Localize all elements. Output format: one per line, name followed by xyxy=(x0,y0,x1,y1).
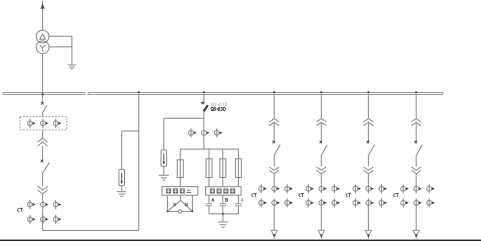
wire feeder 3 down xyxy=(367,207,369,230)
wire box left drop xyxy=(166,195,168,211)
wire QS2 to lower chevrons xyxy=(42,173,44,186)
feeder 3 outgoing arrow xyxy=(365,230,371,237)
CT feeder 3 row1 b xyxy=(366,184,374,193)
CT feeder 2 row2 a xyxy=(306,198,314,207)
wire bus to switch QS1 xyxy=(42,95,44,103)
ground capacitor bank xyxy=(218,222,229,227)
wire capacitor A to rail xyxy=(208,206,210,214)
wire CT box to breaker xyxy=(42,130,44,138)
label CT feeder 3 xyxy=(346,194,351,197)
wire box right drop xyxy=(191,195,193,211)
wire capacitor common rail xyxy=(209,213,238,215)
CT feeder 3 row2 b xyxy=(366,198,374,207)
CT 3a xyxy=(28,215,36,224)
CT 2a xyxy=(28,200,36,209)
node delta bottom left xyxy=(167,211,169,213)
CT feeder 3 row2 c xyxy=(379,198,387,207)
node bus junction incoming xyxy=(41,93,43,95)
contact mark QS1 xyxy=(41,102,44,105)
wire delta bottom xyxy=(167,210,192,212)
wire feeder 2 arrow tail xyxy=(320,237,322,239)
wire feeder 2 switch to chevrons xyxy=(320,155,322,167)
node delta bottom right xyxy=(192,211,194,213)
wire feeder 1 from bus xyxy=(273,95,275,119)
wire box centre drop xyxy=(180,195,182,200)
busbar section I xyxy=(3,93,85,95)
contact mark feeder 2 xyxy=(320,141,323,144)
node bus junction feeder 3 xyxy=(367,91,369,93)
contact mark QS-630 xyxy=(201,102,205,104)
breaker drawout chevrons lower xyxy=(38,186,48,194)
CT 1a xyxy=(28,119,36,128)
wire feeder 4 switch to chevrons xyxy=(415,155,417,167)
wire feeder 4 arrow tail xyxy=(415,237,417,239)
feeder 4 drawout chevrons upper xyxy=(411,119,421,126)
capacitor B plates xyxy=(220,204,227,206)
ground MOA2 xyxy=(159,175,169,180)
CT 2c xyxy=(53,200,61,209)
CT feeder 4 row1 a xyxy=(401,184,409,193)
capacitor A plates xyxy=(206,204,213,206)
label CT feeder 2 xyxy=(299,194,304,197)
wire T1 LV tap to neutral riser xyxy=(49,46,72,48)
wire feeder 2 down xyxy=(320,207,322,230)
label cubicle type faint xyxy=(211,103,227,106)
feeder 4 drawout chevrons lower xyxy=(411,167,421,174)
CT feeder 3 row1 a xyxy=(353,184,361,193)
lamp symbol xyxy=(178,210,181,213)
wire delta left leg xyxy=(167,200,180,211)
label phase C xyxy=(242,199,243,201)
contact mark feeder 3 xyxy=(367,141,370,144)
wire capacitor B to rail xyxy=(222,206,224,214)
fuse F2 xyxy=(206,159,212,178)
wire rail to ground xyxy=(222,214,224,222)
wire feeder 3 chevron to switch xyxy=(367,122,369,141)
feeder 1 outgoing arrow xyxy=(271,230,277,237)
CT feeder 3 row1 c xyxy=(379,184,387,193)
feeder 2 drawout chevrons upper xyxy=(316,119,326,126)
wire rail drop F1 xyxy=(179,149,181,187)
wire rail drop F3 xyxy=(222,149,224,187)
feeder 1 drawout chevrons upper xyxy=(269,119,279,126)
wire loop bottom run xyxy=(43,230,139,232)
label phase B xyxy=(226,198,228,201)
wire feeder 2 to CT grid xyxy=(320,174,322,184)
CT feeder 4 row2 a xyxy=(401,198,409,207)
wire feeder 3 to CT grid xyxy=(367,174,369,184)
wire feeder 4 from bus xyxy=(415,95,417,119)
capacitor C plates xyxy=(235,204,242,206)
wire rail drop F2 xyxy=(208,149,210,187)
CT feeder 2 row2 b xyxy=(319,198,327,207)
node bus junction feeder 4 xyxy=(415,91,417,93)
node capacitor rail centre xyxy=(222,213,224,215)
CT 4c xyxy=(214,128,222,137)
disconnector feeder 4 blade xyxy=(416,145,422,155)
CT 1b xyxy=(41,119,49,128)
wire load-switch drop C xyxy=(237,195,239,204)
CT feeder 4 row1 c xyxy=(427,184,435,193)
CT feeder 4 row1 b xyxy=(414,184,422,193)
CT feeder 4 row2 c xyxy=(427,198,435,207)
feeder 2 outgoing arrow xyxy=(318,230,324,237)
incoming feeder arrow xyxy=(41,1,45,9)
wire MOA2 drop xyxy=(163,118,165,150)
CT 1c xyxy=(53,119,61,128)
fuse cutout mark left xyxy=(173,203,176,206)
wire rail drop F4 xyxy=(237,149,239,187)
wire feeder 2 from bus xyxy=(320,95,322,119)
wire tap to arrester MOA1 xyxy=(122,130,139,132)
disconnector QS2 blade xyxy=(43,162,50,173)
node bus junction feeder 2 xyxy=(320,91,322,93)
wire feeder 3 from bus xyxy=(367,95,369,119)
feeder 1 drawout chevrons lower xyxy=(269,167,279,174)
wire load-switch drop B xyxy=(222,195,224,204)
wire load-switch drop A xyxy=(208,195,210,204)
fuse F1 xyxy=(177,160,183,178)
wire feeder 1 down xyxy=(273,207,275,230)
transformer T1 delta winding xyxy=(36,30,49,43)
CT feeder 2 row2 c xyxy=(332,198,340,207)
contact mark QS2 xyxy=(41,160,44,163)
wire CT row to rail xyxy=(203,137,205,149)
wire feeder 4 down xyxy=(415,207,417,230)
wire MOA1 to ground xyxy=(121,186,123,192)
fuse-switch QS-630 blade xyxy=(204,105,208,111)
wire QS-630 down xyxy=(203,111,205,128)
CT 4b xyxy=(202,128,210,137)
CT feeder 1 row1 c xyxy=(285,184,293,193)
busbar section II xyxy=(88,93,443,95)
CT feeder 4 row2 b xyxy=(414,198,422,207)
load switch box label xyxy=(206,187,242,196)
wire section branch down xyxy=(42,209,44,230)
surge arrester MOA1 xyxy=(119,169,125,185)
fuse cutout mark right xyxy=(185,203,188,206)
wire between chevrons xyxy=(42,146,44,160)
CT feeder 1 row1 b xyxy=(272,184,280,193)
wire bus to switch QS-630 xyxy=(203,95,205,103)
wire feeder 3 arrow tail xyxy=(367,237,369,239)
wire feeder 1 arrow tail xyxy=(273,237,275,239)
wire incoming to transformer xyxy=(42,9,44,30)
wire feeder 4 to CT grid xyxy=(415,174,417,184)
wire tap to arrester MOA2 xyxy=(164,117,204,119)
label CT feeder 4 xyxy=(394,194,399,197)
label CT left branch xyxy=(18,208,23,211)
disconnector feeder 2 blade xyxy=(322,145,328,155)
feeder 2 drawout chevrons lower xyxy=(317,167,327,174)
node bus junction station xyxy=(203,91,205,93)
contact mark feeder 1 xyxy=(273,141,276,144)
contact mark feeder 4 xyxy=(415,141,418,144)
wire feeder 1 chevron to switch xyxy=(273,122,275,141)
CT feeder 1 row1 a xyxy=(259,184,267,193)
wire capacitor C to rail xyxy=(237,206,239,214)
CT feeder 1 row2 b xyxy=(272,198,280,207)
label QS-630 xyxy=(211,107,225,111)
disconnector feeder 1 blade xyxy=(274,145,280,155)
CT feeder 3 row2 a xyxy=(353,198,361,207)
transformer T1 wye winding xyxy=(36,41,49,54)
wire chevrons to CT grid xyxy=(42,194,44,200)
wire distribution rail xyxy=(180,148,238,150)
CT 2b xyxy=(41,200,49,209)
CT feeder 2 row1 a xyxy=(306,184,314,193)
breaker drawout chevrons upper xyxy=(38,138,48,146)
CT feeder 2 row1 c xyxy=(332,184,340,193)
CT 3c xyxy=(53,215,61,224)
wire T1 to bus xyxy=(42,54,44,92)
feeder box label (city building 2) xyxy=(162,187,198,196)
wire feeder 2 chevron to switch xyxy=(320,122,322,141)
disconnector feeder 3 blade xyxy=(369,145,375,155)
wire T1 HV tap to neutral riser xyxy=(49,35,72,37)
disconnector QS1 blade xyxy=(42,105,47,113)
fuse F4 xyxy=(235,159,241,178)
CT 3b xyxy=(41,215,49,224)
label phase A xyxy=(212,198,214,201)
wire feeder 1 to CT grid xyxy=(273,174,275,184)
surge arrester MOA2 xyxy=(161,150,167,166)
CT feeder 1 row2 a xyxy=(259,198,267,207)
feeder 3 drawout chevrons upper xyxy=(363,119,373,126)
fuse F3 xyxy=(220,159,226,178)
label CT feeder 1 xyxy=(252,194,257,197)
wire riser bus to bottom xyxy=(138,95,140,231)
ground MOA1 xyxy=(117,192,126,197)
node bus junction riser xyxy=(138,91,140,93)
CT feeder 1 row2 c xyxy=(285,198,293,207)
wire QS1 to CT box xyxy=(42,113,44,116)
node bus junction feeder 1 xyxy=(273,91,275,93)
wire feeder 1 switch to chevrons xyxy=(273,155,275,167)
CT cubicle dashed box xyxy=(20,117,67,130)
CT feeder 2 row1 b xyxy=(319,184,327,193)
feeder 3 drawout chevrons lower xyxy=(364,167,374,174)
feeder 4 outgoing arrow xyxy=(413,230,419,237)
wire feeder 4 chevron to switch xyxy=(415,122,417,141)
wire MOA1 drop xyxy=(121,131,123,169)
wire delta right leg xyxy=(181,200,193,211)
wire neutral riser xyxy=(71,36,73,65)
bottom border line xyxy=(0,240,481,241)
ground transformer neutral xyxy=(68,65,77,69)
wire MOA2 to ground xyxy=(163,166,165,175)
CT 4a xyxy=(189,128,197,137)
wire feeder 3 switch to chevrons xyxy=(367,155,369,167)
